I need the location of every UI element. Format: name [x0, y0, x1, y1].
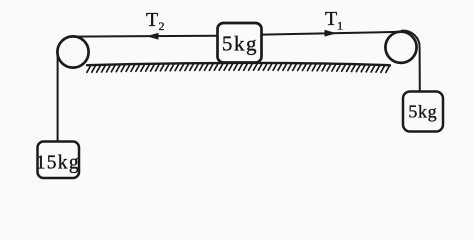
svg-text:T: T [146, 9, 158, 31]
wire: right rope T1 (block to pulley top) [262, 32, 403, 35]
arrowhead T1 (right) [325, 30, 337, 37]
wire: left vertical rope to 15kg [57, 50, 59, 142]
mass 15kg [38, 142, 80, 179]
wire: left rope T2 (pulley top to block) [73, 35, 218, 38]
pulley left [57, 36, 88, 67]
svg-text:2: 2 [159, 19, 165, 33]
table hatching [87, 64, 389, 72]
block 5kg on table [218, 23, 262, 63]
svg-text:5kg: 5kg [222, 32, 258, 56]
svg-text:T: T [325, 8, 337, 30]
mass 5kg hanging [403, 92, 443, 132]
wire: right vertical rope to hanging 5kg [402, 31, 420, 92]
arrowhead T2 (left) [147, 33, 159, 40]
svg-text:15kg: 15kg [36, 153, 80, 174]
table surface line [87, 63, 390, 65]
svg-text:5kg: 5kg [408, 102, 437, 122]
pulley right [385, 32, 416, 63]
svg-text:1: 1 [337, 19, 343, 33]
